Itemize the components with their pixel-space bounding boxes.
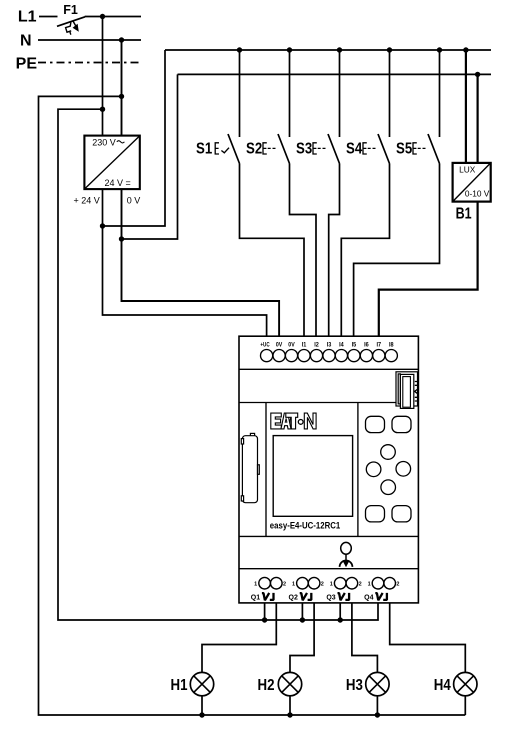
svg-text:+UC: +UC: [260, 341, 269, 348]
svg-text:Q3: Q3: [326, 595, 335, 602]
svg-text:Q2: Q2: [289, 595, 298, 602]
svg-text:F1: F1: [63, 3, 78, 17]
svg-text:1: 1: [330, 582, 333, 588]
svg-text:I1: I1: [302, 341, 307, 348]
svg-text:2: 2: [283, 582, 286, 588]
svg-text:1: 1: [368, 582, 371, 588]
svg-text:0-10 V: 0-10 V: [465, 188, 490, 198]
svg-text:I7: I7: [377, 341, 382, 348]
svg-text:I8: I8: [389, 341, 394, 348]
svg-text:I5: I5: [352, 341, 357, 348]
svg-text:B1: B1: [456, 206, 472, 223]
svg-text:H4: H4: [434, 677, 451, 694]
svg-text:I4: I4: [339, 341, 344, 348]
svg-text:L1: L1: [18, 9, 37, 26]
svg-text:0V: 0V: [276, 341, 283, 348]
svg-text:S2: S2: [246, 141, 262, 158]
svg-text:easy-E4-UC-12RC1: easy-E4-UC-12RC1: [270, 520, 341, 530]
svg-text:S3: S3: [296, 141, 312, 158]
svg-text:I6: I6: [364, 341, 369, 348]
svg-text:H2: H2: [258, 677, 275, 694]
svg-text:24 V =: 24 V =: [105, 178, 131, 188]
svg-text:2: 2: [321, 582, 324, 588]
svg-text:0 V: 0 V: [127, 196, 141, 206]
svg-text:PE: PE: [16, 56, 38, 73]
svg-text:H3: H3: [346, 677, 363, 694]
svg-text:0V: 0V: [288, 341, 295, 348]
svg-text:I2: I2: [314, 341, 319, 348]
svg-text:H1: H1: [171, 677, 188, 694]
svg-text:N: N: [20, 33, 32, 50]
svg-text:S5: S5: [396, 141, 412, 158]
svg-text:+ 24 V: + 24 V: [74, 196, 100, 206]
svg-text:LUX: LUX: [459, 164, 476, 174]
svg-text:2: 2: [359, 582, 362, 588]
svg-text:S4: S4: [346, 141, 362, 158]
svg-text:Q1: Q1: [251, 595, 260, 602]
svg-text:2: 2: [396, 582, 399, 588]
svg-text:I3: I3: [327, 341, 332, 348]
svg-text:Q4: Q4: [364, 595, 373, 602]
svg-text:1: 1: [292, 582, 295, 588]
svg-text:S1: S1: [196, 141, 212, 158]
svg-text:230 V: 230 V: [92, 137, 116, 147]
svg-text:1: 1: [254, 582, 257, 588]
